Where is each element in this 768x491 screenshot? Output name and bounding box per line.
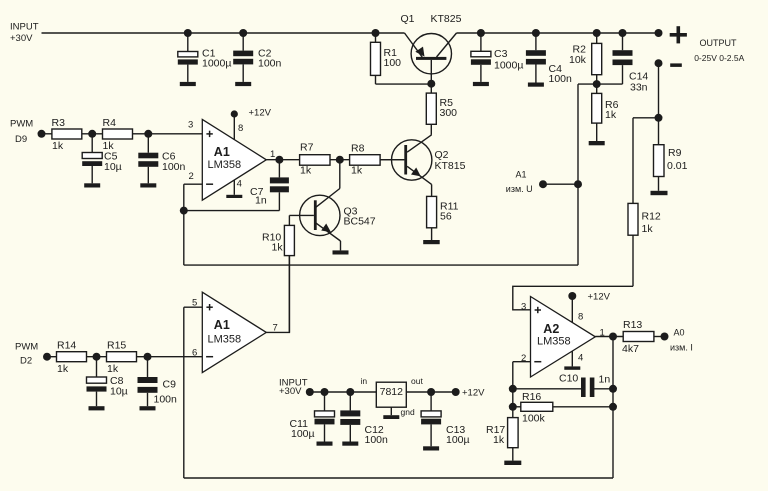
ground A2 pin4 — [564, 366, 580, 369]
wire minus vertical — [658, 63, 660, 118]
svg-text:+12V: +12V — [462, 388, 485, 399]
node izm U terminal — [539, 180, 547, 188]
wire R12 to A2 pin3 — [513, 286, 633, 310]
svg-text:Q1: Q1 — [401, 13, 415, 25]
resistor R14 — [47, 352, 107, 362]
node C12 junction — [346, 388, 354, 396]
node +12V terminal — [452, 388, 460, 396]
svg-text:100µ: 100µ — [291, 428, 315, 440]
wire A2 output vertical — [612, 337, 614, 479]
resistor R15 — [107, 352, 148, 362]
capacitor C11 — [315, 392, 335, 442]
ground 7812 — [383, 415, 399, 419]
ground Q3 — [333, 250, 349, 254]
svg-text:3: 3 — [521, 301, 526, 312]
svg-text:1: 1 — [600, 327, 605, 338]
transistor Q2 — [380, 135, 432, 197]
svg-text:in: in — [361, 376, 368, 386]
resistor R5 — [426, 84, 436, 135]
node A1 +12V — [231, 110, 238, 117]
svg-text:D9: D9 — [15, 134, 27, 145]
wire A1b pin5 vertical — [183, 307, 185, 478]
wire R2 bottom row — [578, 83, 623, 85]
ground C2 — [235, 82, 251, 86]
node PWM D9 terminal — [38, 130, 46, 138]
svg-text:1000µ: 1000µ — [494, 60, 523, 72]
ground C11 — [317, 442, 333, 446]
minus terminal symbol — [670, 63, 682, 67]
capacitor C4 — [526, 33, 546, 83]
ground R17 — [504, 461, 521, 465]
svg-text:A0: A0 — [674, 328, 685, 338]
node C13 junction — [427, 388, 435, 396]
svg-text:PWM: PWM — [15, 342, 38, 353]
wire A1 pin1 — [266, 159, 299, 161]
capacitor C14 — [613, 33, 633, 84]
wire A1b pin5 — [184, 306, 203, 308]
node A1 pin2 junction — [180, 207, 188, 215]
capacitor C10 — [513, 378, 613, 398]
ground C12 — [342, 442, 358, 446]
node C1 top — [184, 29, 192, 37]
svg-text:A1: A1 — [214, 318, 230, 332]
node R16 right junction — [609, 403, 617, 411]
wire A1b pin7 — [266, 256, 289, 333]
node C2 top — [239, 29, 247, 37]
node A2 output junction — [609, 333, 617, 341]
svg-text:8: 8 — [578, 312, 583, 323]
node 7812 input terminal — [306, 388, 314, 396]
transistor Q1 — [405, 33, 457, 84]
wire to R12 branch — [633, 117, 659, 119]
svg-text:LM358: LM358 — [208, 334, 242, 346]
resistor R2 — [592, 33, 602, 84]
wire top rail left — [42, 32, 405, 34]
svg-text:gnd: gnd — [401, 407, 415, 417]
ground C5 — [84, 183, 100, 187]
svg-text:0-25V 0-2.5A: 0-25V 0-2.5A — [694, 53, 744, 63]
node C14 top — [619, 29, 627, 37]
node Q1 base junction — [427, 80, 435, 88]
wire A1 pin2 stub — [184, 183, 203, 185]
op-amp A1 — [202, 114, 266, 200]
svg-text:1n: 1n — [255, 195, 267, 207]
svg-text:LM358: LM358 — [537, 336, 571, 348]
wire A1b pin6 — [148, 356, 203, 358]
node R4 junction — [144, 130, 152, 138]
svg-text:изм. I: изм. I — [670, 343, 693, 353]
wire 7812 input — [310, 391, 377, 393]
node C11 junction — [321, 388, 329, 396]
ground R11 — [423, 240, 440, 244]
svg-text:1k: 1k — [351, 165, 363, 177]
op-amp A1 second half — [202, 292, 266, 372]
svg-text:OUTPUT: OUTPUT — [700, 38, 738, 48]
wire voltage feedback vertical right — [577, 84, 579, 265]
svg-text:KT825: KT825 — [431, 13, 462, 25]
ground R6 — [589, 141, 605, 145]
wire A2 pin2 vertical — [512, 362, 514, 418]
resistor R6 — [592, 84, 602, 141]
svg-text:R4: R4 — [103, 117, 117, 129]
wire izm U stub — [543, 183, 578, 185]
svg-text:LM358: LM358 — [208, 159, 242, 171]
svg-text:C10: C10 — [559, 373, 578, 385]
capacitor C2 — [233, 33, 253, 82]
ground R9 — [651, 191, 668, 195]
resistor R11 — [427, 196, 437, 240]
ground C4 — [528, 83, 544, 87]
svg-text:A1: A1 — [214, 145, 230, 159]
svg-text:100n: 100n — [162, 161, 186, 173]
svg-text:8: 8 — [238, 123, 243, 134]
svg-text:R12: R12 — [642, 211, 661, 223]
resistor R12 — [628, 118, 638, 286]
svg-text:R7: R7 — [300, 142, 314, 154]
svg-text:100n: 100n — [154, 394, 178, 406]
capacitor C8 — [87, 357, 107, 407]
svg-text:R14: R14 — [57, 340, 76, 352]
svg-text:100n: 100n — [258, 58, 282, 70]
svg-text:10k: 10k — [569, 54, 587, 66]
node R3 R4 junction — [88, 130, 96, 138]
ground A1 pin4 — [226, 195, 242, 198]
svg-text:7812: 7812 — [380, 386, 404, 398]
resistor R8 — [350, 155, 405, 166]
wire A1 pin2 vertical — [183, 184, 185, 265]
node C3 top — [477, 29, 485, 37]
svg-text:D2: D2 — [20, 356, 32, 367]
node R1 top — [372, 29, 380, 37]
capacitor C9 — [138, 357, 158, 407]
capacitor C5 — [82, 134, 102, 184]
svg-text:1k: 1k — [642, 223, 654, 235]
svg-text:R8: R8 — [351, 143, 365, 155]
node R14 R15 junction — [93, 353, 101, 361]
svg-text:C9: C9 — [163, 379, 177, 391]
node output minus — [655, 59, 663, 67]
node R16 left junction — [509, 403, 517, 411]
ground C6 — [140, 183, 156, 187]
svg-text:100µ: 100µ — [446, 434, 470, 446]
node output plus — [655, 29, 663, 37]
node C10 right junction — [609, 385, 617, 393]
svg-text:6: 6 — [192, 348, 197, 359]
ground C9 — [140, 406, 156, 410]
svg-text:5: 5 — [192, 298, 197, 309]
node C4 top — [532, 29, 540, 37]
svg-text:1k: 1k — [52, 140, 64, 152]
resistor R13 — [623, 332, 664, 342]
svg-text:100k: 100k — [522, 413, 546, 425]
resistor R16 — [513, 402, 613, 411]
svg-text:10µ: 10µ — [104, 161, 122, 173]
svg-text:100n: 100n — [365, 434, 389, 446]
resistor R3 — [42, 129, 103, 139]
op-amp A2 — [531, 296, 596, 377]
resistor R9 — [654, 118, 665, 191]
svg-text:+12V: +12V — [249, 108, 272, 119]
node PWM D2 terminal — [43, 353, 51, 361]
svg-text:4: 4 — [237, 179, 242, 190]
svg-text:33n: 33n — [630, 82, 648, 94]
svg-text:1k: 1k — [57, 363, 69, 375]
svg-text:1k: 1k — [493, 434, 505, 446]
svg-text:1n: 1n — [599, 374, 611, 386]
svg-text:1k: 1k — [272, 242, 284, 254]
svg-text:2: 2 — [521, 353, 526, 364]
capacitor C12 — [340, 392, 360, 442]
node R9 top junction — [655, 114, 663, 122]
regulator 7812 — [376, 382, 406, 415]
svg-text:56: 56 — [440, 211, 452, 223]
node R2 top — [593, 29, 601, 37]
svg-text:1000µ: 1000µ — [202, 58, 231, 70]
wire top rail right — [457, 32, 659, 34]
ground C3 — [473, 82, 489, 86]
node R2 bottom junction — [593, 80, 601, 88]
node A0 terminal — [661, 333, 669, 341]
svg-text:100n: 100n — [549, 73, 573, 85]
svg-text:изм. U: изм. U — [506, 184, 533, 194]
svg-text:100: 100 — [384, 57, 402, 69]
node A1 pin1 junction — [275, 156, 283, 164]
transistor Q3 — [289, 160, 340, 251]
svg-text:+30V: +30V — [279, 386, 302, 397]
svg-text:BC547: BC547 — [344, 216, 376, 228]
svg-text:R15: R15 — [107, 340, 126, 352]
ground C8 — [89, 406, 105, 410]
capacitor C7 — [270, 160, 289, 211]
node A2 +12V — [568, 292, 576, 300]
svg-text:0.01: 0.01 — [667, 160, 688, 172]
capacitor C6 — [138, 134, 158, 184]
svg-text:1k: 1k — [107, 363, 119, 375]
capacitor C13 — [421, 392, 441, 446]
wire C7 bottom row — [184, 210, 280, 212]
svg-text:PWM: PWM — [10, 118, 33, 129]
wire 7812 output — [406, 391, 455, 393]
svg-text:+30V: +30V — [10, 33, 33, 44]
svg-text:3: 3 — [188, 120, 193, 131]
svg-text:1: 1 — [270, 149, 275, 160]
resistor R1 — [371, 33, 432, 84]
node izm U junction — [574, 180, 582, 188]
svg-text:1k: 1k — [300, 165, 312, 177]
svg-text:C3: C3 — [494, 48, 508, 60]
svg-text:out: out — [411, 376, 423, 386]
capacitor C1 — [178, 33, 198, 82]
wire A2 pin1 — [595, 336, 623, 338]
svg-text:4: 4 — [578, 353, 583, 364]
svg-text:300: 300 — [440, 107, 458, 119]
resistor R4 — [103, 129, 149, 139]
wire voltage feedback horizontal — [184, 264, 578, 266]
node R7 R8 junction — [336, 156, 344, 164]
capacitor C3 — [471, 33, 491, 82]
wire bottom rail — [184, 477, 613, 479]
ground C13 — [423, 446, 439, 450]
svg-text:7: 7 — [273, 323, 278, 334]
wire A1 pin3 — [148, 133, 202, 135]
svg-text:2: 2 — [189, 171, 194, 182]
svg-text:R13: R13 — [623, 319, 642, 331]
svg-text:R9: R9 — [668, 147, 682, 159]
svg-text:INPUT: INPUT — [10, 22, 39, 33]
svg-text:A2: A2 — [543, 322, 559, 336]
svg-text:10µ: 10µ — [110, 386, 128, 398]
svg-text:+12V: +12V — [588, 292, 611, 303]
node R15 junction — [144, 353, 152, 361]
svg-text:R16: R16 — [522, 391, 541, 403]
svg-text:KT815: KT815 — [435, 160, 466, 172]
svg-text:4k7: 4k7 — [622, 343, 639, 355]
ground C1 — [180, 82, 196, 86]
svg-text:A1: A1 — [516, 170, 527, 180]
resistor R7 — [300, 155, 350, 166]
resistor R17 — [508, 418, 518, 461]
resistor R10 — [284, 215, 294, 332]
node C10 left junction — [509, 385, 517, 393]
svg-text:1k: 1k — [605, 109, 617, 121]
svg-text:R3: R3 — [52, 117, 66, 129]
plus terminal symbol — [670, 26, 687, 43]
wire A2 pin2 — [513, 361, 531, 363]
